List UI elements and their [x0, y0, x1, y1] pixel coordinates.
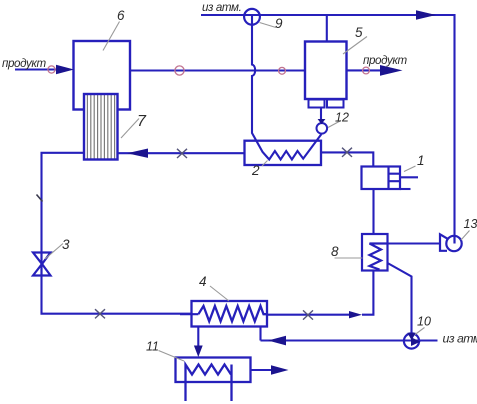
svg-text:из атм.: из атм. — [443, 332, 477, 346]
svg-text:11: 11 — [146, 340, 159, 354]
svg-text:продукт: продукт — [2, 57, 47, 70]
svg-text:4: 4 — [199, 274, 207, 289]
svg-text:12: 12 — [335, 111, 349, 125]
svg-text:из атм.: из атм. — [202, 1, 241, 14]
svg-text:13: 13 — [464, 217, 477, 231]
svg-text:9: 9 — [275, 16, 283, 31]
svg-text:8: 8 — [331, 244, 339, 259]
svg-text:3: 3 — [62, 237, 70, 252]
svg-text:1: 1 — [417, 153, 425, 168]
svg-text:7: 7 — [137, 113, 147, 130]
svg-text:5: 5 — [355, 25, 363, 40]
svg-text:2: 2 — [251, 163, 260, 178]
svg-text:6: 6 — [117, 8, 125, 23]
svg-text:продукт: продукт — [363, 54, 408, 67]
svg-text:10: 10 — [417, 315, 431, 329]
